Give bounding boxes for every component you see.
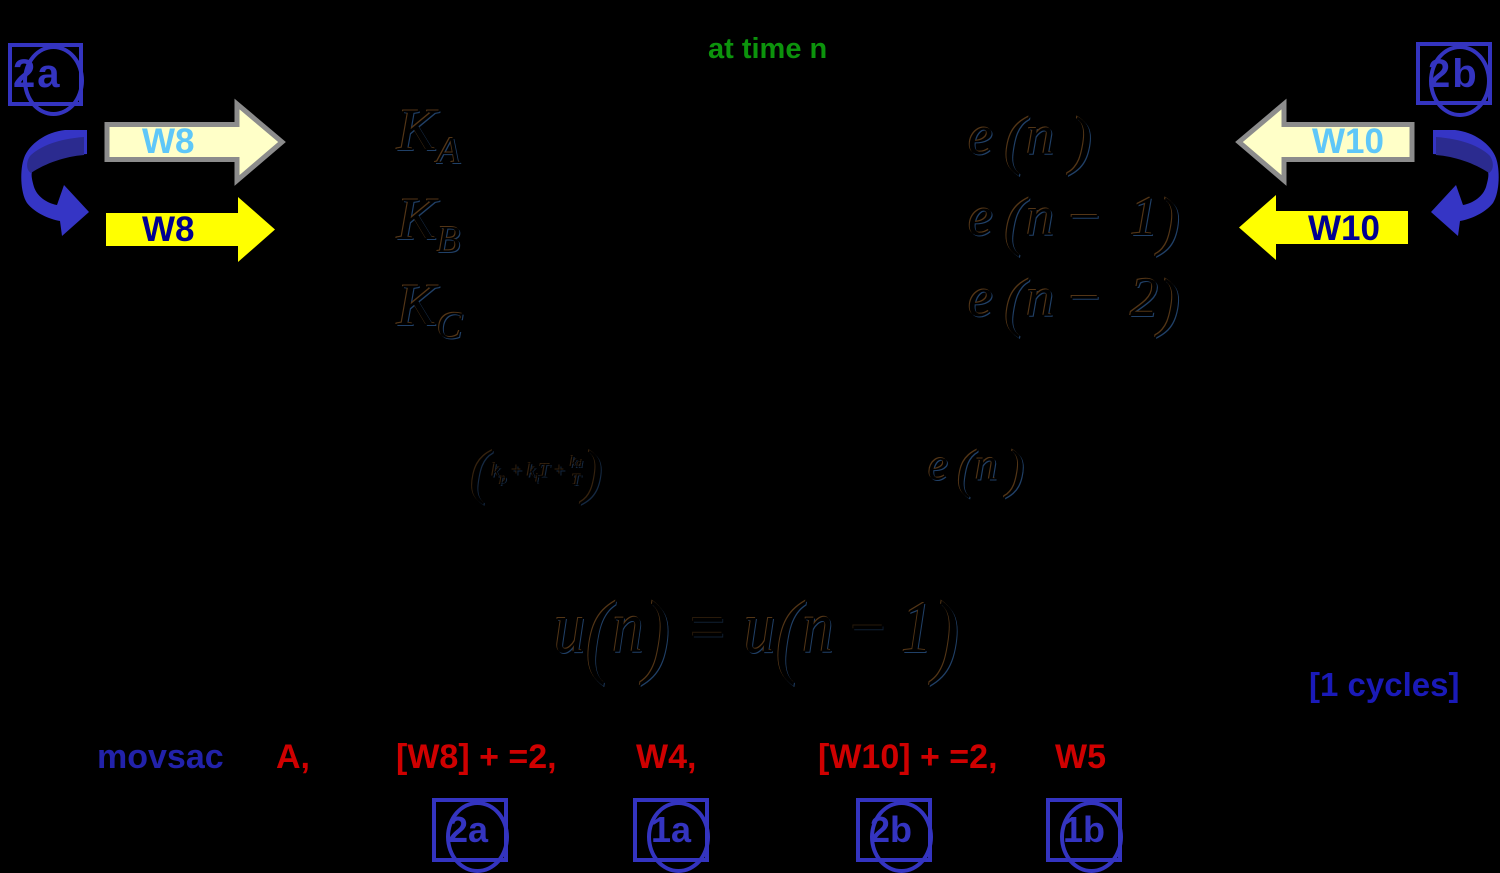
math e(n-2) row3	[968, 270, 1180, 336]
title: at time n	[708, 33, 827, 66]
arrow W8 pale (left, points right)	[100, 97, 295, 192]
badge 1b bottom	[0, 0, 1, 1]
operand [W10] + =2,	[818, 740, 998, 774]
operand A,	[276, 740, 310, 774]
operand W5	[1055, 740, 1106, 774]
math e(n) row1	[968, 108, 1092, 174]
curved arrow left (blue u-turn)	[10, 122, 105, 245]
badge 2b bottom	[0, 0, 1, 1]
badge 2a bottom	[0, 0, 1, 1]
operand [W8] + =2,	[396, 740, 557, 774]
math K_B	[397, 189, 460, 259]
curved arrow right (blue u-turn, mirrored)	[1415, 122, 1500, 245]
math e(n) middle	[928, 442, 1024, 496]
math u(n)=u(n-1) big	[554, 588, 959, 682]
math e(n-1) row2	[968, 189, 1180, 255]
label W8 navy	[142, 212, 195, 247]
arrow W10 yellow (right, points left)	[1232, 188, 1412, 263]
arrow W8 yellow (left, points right)	[100, 190, 280, 265]
label W10 navy	[1308, 211, 1380, 246]
operand W4,	[636, 740, 696, 774]
arrow W10 pale (right, points left)	[1226, 97, 1421, 192]
math K_C	[397, 275, 462, 345]
math small (kp + kiT + kd/T)	[470, 442, 603, 502]
note [1 cycles]	[1309, 668, 1459, 701]
badge 1a bottom	[0, 0, 1, 1]
instruction line: movsac	[97, 740, 224, 774]
badge 2b top-right	[0, 0, 1, 1]
label W8 light blue	[142, 124, 195, 159]
label W10 light blue	[1312, 124, 1384, 159]
badge 2a top-left	[0, 0, 1, 1]
math K_A	[397, 100, 460, 170]
